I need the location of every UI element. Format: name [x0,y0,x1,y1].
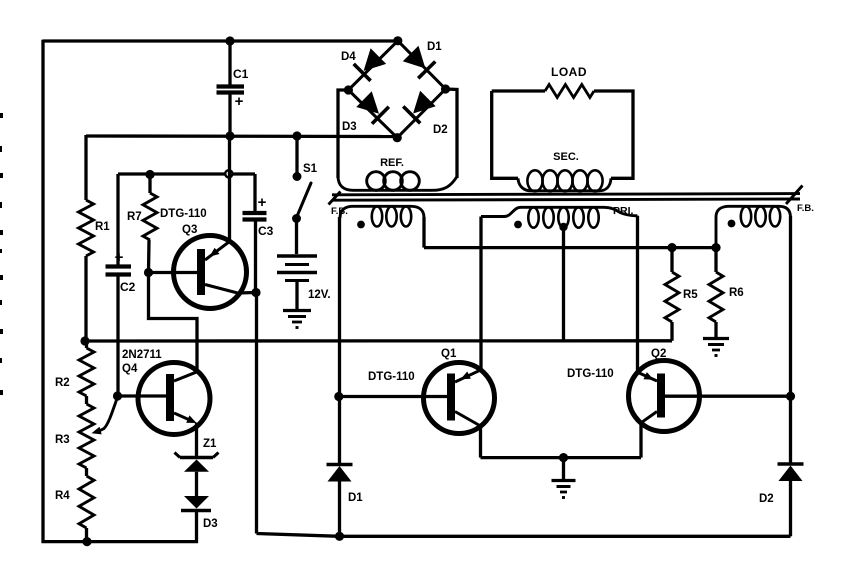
wire bridge left vertex to REF winding [338,90,348,178]
node junction R4 bottom [82,537,91,546]
ground below battery [283,309,311,312]
wire Q3 collector branch down [255,293,258,534]
svg-text:C3: C3 [258,224,274,238]
node junction S1 top [292,131,301,140]
svg-text:DTG-110: DTG-110 [368,371,415,383]
wire base-bias line y174 [118,172,255,175]
resistor LOAD [545,85,594,98]
svg-text:R6: R6 [729,287,744,299]
transistor Q4 2N2711 [138,363,210,435]
node junction Q3 collector [251,288,260,297]
transistor Q2 DTG-110 [629,361,700,432]
svg-text:R3: R3 [55,434,70,446]
resistor R3 potentiometer [85,396,88,404]
diode D1 bridge [403,46,426,69]
node junction Q4 base [113,391,122,400]
svg-text:PRI.: PRI. [613,205,634,217]
battery 12V [295,219,298,255]
svg-text:SEC.: SEC. [553,151,579,163]
node junction R1/R2 [80,336,89,345]
core left slash [329,192,341,205]
wire top supply rail [43,39,397,42]
node junction Q2 base / D2 [786,392,795,401]
wire Z1 to D3 [195,472,198,496]
resistor R5 [670,248,673,272]
resistor R6 [714,248,717,272]
svg-text:12V.: 12V. [308,289,331,301]
svg-text:Q2: Q2 [651,348,666,360]
svg-text:DTG-110: DTG-110 [160,208,207,220]
wire FB line y247 [424,246,716,249]
wire Q4 emitter down [195,423,198,459]
wire bottom right rail [257,534,791,537]
diode D3 bridge [356,91,379,114]
node bridge top [393,36,402,45]
wire mid rail y136 [86,134,397,138]
capacitor C3 [253,174,256,212]
resistor R7 [148,174,151,193]
svg-text:+: + [258,194,267,211]
svg-text:Q1: Q1 [441,348,457,360]
wire Q1 collector down [479,426,482,458]
svg-text:R5: R5 [683,289,698,301]
transformer core line lower [332,199,800,200]
svg-text:Q4: Q4 [122,363,138,375]
wire LOAD box left [492,91,545,178]
svg-text:R4: R4 [55,490,70,502]
zener Z1 [180,456,213,459]
svg-text:D3: D3 [203,518,218,530]
wire PRI left terminal down to Q1 emitter [479,217,482,370]
svg-text:R1: R1 [95,221,110,233]
winding FB right [716,206,791,248]
wire Q4 collector to Q3 base [149,273,198,372]
svg-text:D2: D2 [759,493,774,505]
capacitor C2 [116,174,119,265]
wire left vertical bus [41,40,44,543]
wire FB-left left terminal / D1 branch [338,217,341,465]
svg-text:LOAD: LOAD [551,65,587,79]
transistor Q1 DTG-110 [424,363,495,434]
wire FB-right right terminal / D2 branch [789,216,792,464]
diode D4 bridge [364,48,387,71]
resistor R1 [84,135,87,200]
switch S1 [295,136,298,175]
wire bridge right vertex to REF winding [446,89,458,178]
resistor R2 [79,348,94,396]
wiper arm R3 [99,397,118,431]
node bridge bottom [393,133,402,142]
core right slash [786,186,803,205]
node junction C1 top [225,36,234,45]
phasing dot FB left [357,221,365,229]
wire bottom left rail [42,540,198,543]
svg-text:R7: R7 [127,211,142,223]
svg-text:Q3: Q3 [182,224,197,236]
wire Q3 emitter to rail [228,136,231,242]
diode D1 power [327,463,353,466]
ground below R6 [703,337,729,340]
svg-text:+: + [115,249,124,266]
winding PRI [481,207,638,216]
svg-text:C2: C2 [120,280,136,294]
node bridge left [344,85,353,94]
capacitor C1 [228,41,231,85]
phasing dot PRI [514,221,522,229]
winding FB left [340,206,424,218]
svg-text:D1: D1 [348,492,363,504]
node junction ground tap [559,453,568,462]
svg-text:D1: D1 [427,41,442,53]
phasing dot FB right [728,220,736,228]
svg-text:2N2711: 2N2711 [122,349,162,361]
scan page-edge marks [0,113,3,118]
wire LOAD box right [594,91,633,178]
resistor R4 [85,468,88,476]
winding SEC [518,178,611,191]
wire bridge diamond [348,41,445,138]
wire PRI center tap down [562,227,565,341]
node junction C1 bottom [225,131,234,140]
diode D3 [184,496,209,509]
svg-text:+: + [235,93,244,110]
svg-text:S1: S1 [303,163,318,175]
wire FB-left right terminal down [422,217,425,248]
winding REF [338,176,457,190]
svg-text:D4: D4 [341,51,356,63]
diode D2 bridge [413,91,436,114]
ground center [562,458,565,480]
node junction Q1 base [334,392,343,401]
node bridge right [441,84,450,93]
wire PRI right terminal down to Q2 emitter [636,216,639,372]
svg-text:D2: D2 [433,124,448,136]
wire common collector rail [481,456,642,459]
node junction R5 top [667,243,676,252]
svg-text:REF.: REF. [380,157,404,169]
node junction Q3 base [144,268,153,277]
node junction R6 top [711,243,720,252]
svg-text:F.B.: F.B. [797,203,814,214]
transformer core line upper [332,194,800,195]
wire D3 down [195,511,198,544]
svg-text:D3: D3 [342,121,357,133]
svg-text:C1: C1 [233,67,249,81]
transistor Q3 DTG-110 [174,236,247,309]
wire Q2 collector down [639,423,642,458]
node junction PRI center tap [559,223,567,231]
svg-text:R2: R2 [55,377,70,389]
svg-text:DTG-110: DTG-110 [567,368,614,380]
wire feedback rail y341 [85,339,673,343]
crossover hop at (229,174) [225,170,232,177]
node junction R7 top [145,170,154,179]
node junction D1 bottom [335,532,344,541]
svg-text:Z1: Z1 [203,438,217,450]
diode D2 power [778,462,804,465]
